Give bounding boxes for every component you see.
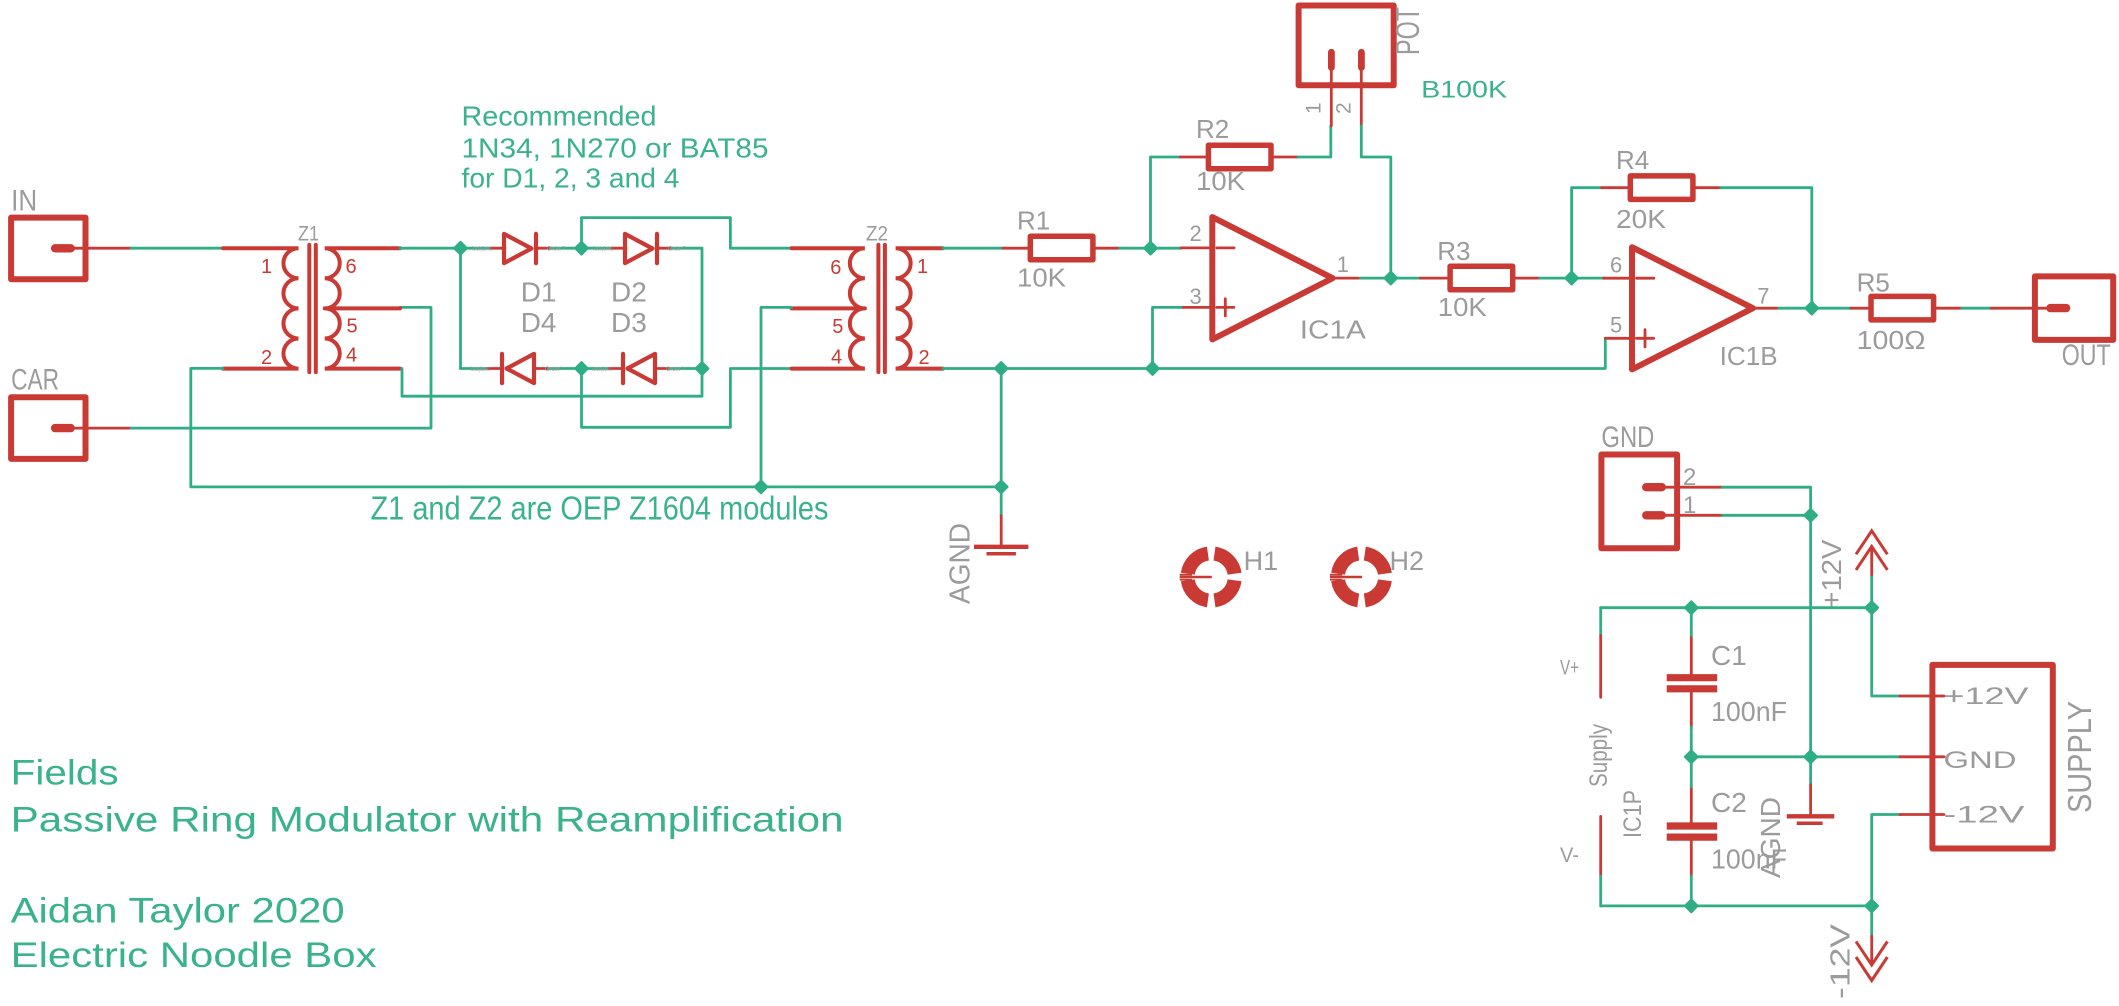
svg-text:Z1 and Z2 are OEP Z1604 module: Z1 and Z2 are OEP Z1604 modules [371, 489, 829, 526]
svg-text:6: 6 [830, 257, 841, 279]
svg-text:2: 2 [919, 347, 930, 369]
svg-text:10K: 10K [1017, 263, 1067, 293]
wire V- to -12V rail [1599, 876, 1602, 906]
diode D3 [582, 354, 689, 383]
wire C2 top [1690, 757, 1693, 787]
junction AGND net at Z2 pin5 drop [755, 481, 768, 494]
svg-text:2: 2 [1683, 464, 1696, 491]
svg-text:V+: V+ [1560, 657, 1579, 680]
svg-text:100nF: 100nF [1711, 844, 1787, 875]
svg-text:C2: C2 [1711, 787, 1747, 818]
transformer Z2 [792, 223, 943, 373]
wire AGND riser [1000, 369, 1003, 487]
wire AGND supply stem [1809, 757, 1812, 785]
wire R5 to OUT [1962, 307, 1991, 310]
wire IN to Z1 pin 1 [131, 247, 223, 250]
wire diode ring right side (D2 cathode to D3 cathode) [688, 248, 702, 368]
wire C1 bottom [1690, 727, 1693, 757]
wire R3 to IC1B node [1540, 277, 1572, 280]
svg-text:+12V: +12V [1816, 539, 1847, 608]
resistor R2 10K [1180, 114, 1298, 196]
svg-text:B100K: B100K [1421, 76, 1507, 103]
svg-text:Aidan Taylor 2020: Aidan Taylor 2020 [11, 892, 345, 931]
wire output node to R5 [1812, 307, 1851, 310]
svg-text:R4: R4 [1616, 145, 1649, 175]
junction AGND net main [995, 481, 1008, 494]
svg-text:-12V: -12V [1944, 802, 2025, 829]
svg-text:R2: R2 [1196, 114, 1229, 144]
junction C1/C2 on GND rail [1685, 751, 1698, 764]
svg-text:5: 5 [347, 316, 358, 338]
junction C2 bottom on -12V rail [1685, 900, 1698, 913]
wire GND pin 2 [1723, 487, 1811, 515]
wire IC1A output to output node [1360, 277, 1390, 280]
svg-text:D2: D2 [611, 276, 647, 307]
diode D2 [582, 234, 689, 263]
svg-text:IC1B: IC1B [1720, 341, 1778, 371]
op-amp power pins IC1P [1560, 636, 1647, 877]
connector POT [1299, 6, 1426, 126]
wire Z2 pin 2 to AGND junction [943, 367, 1001, 370]
junction +12V rail right [1865, 601, 1878, 614]
svg-text:SchottkyBarrier1: SchottkyBarrier1 [593, 247, 613, 253]
mounting hole H2 [1330, 546, 1424, 600]
svg-text:6: 6 [1610, 253, 1622, 278]
power symbol -12V arrow [1825, 924, 1888, 999]
svg-text:2: 2 [261, 347, 272, 369]
junction -12V rail right [1865, 900, 1878, 913]
wire C2 bottom [1690, 876, 1693, 906]
svg-text:4: 4 [831, 347, 842, 369]
junction diode ring top-left [454, 242, 467, 255]
svg-text:R3: R3 [1437, 236, 1470, 266]
wire node B up-over to Z2 pin 6 [582, 218, 792, 249]
svg-text:R5: R5 [1857, 268, 1890, 298]
svg-text:5: 5 [832, 316, 843, 338]
svg-text:5: 5 [1610, 313, 1622, 338]
wire POT pin 2 to IC1A output node [1361, 126, 1391, 278]
svg-text:100Ω: 100Ω [1857, 325, 1926, 355]
svg-text:GND: GND [1944, 747, 2017, 774]
transformer Z1 [223, 223, 400, 373]
wire GND rail [1691, 755, 1900, 758]
wire Z1 pin 6 to diode ring node A [400, 247, 461, 250]
wire IC1A pin 3 to AGND net [1153, 307, 1182, 368]
svg-text:1: 1 [917, 256, 928, 278]
resistor R3 10K [1420, 236, 1540, 322]
svg-text:OUT: OUT [2062, 339, 2111, 372]
wire CAR to Z1 pin 5 [131, 307, 431, 428]
svg-text:10K: 10K [1196, 166, 1246, 196]
wire C1 top [1690, 608, 1693, 636]
wire +12V arrow stem [1870, 577, 1873, 608]
junction IC1A pin3 on AGND net [1146, 362, 1159, 375]
svg-text:1N34, 1N270 or BAT85: 1N34, 1N270 or BAT85 [462, 132, 769, 163]
wire -12V pin of SUPPLY [1872, 815, 1900, 906]
svg-text:6: 6 [346, 256, 357, 278]
svg-text:2: 2 [1190, 221, 1202, 246]
wire GND connector to GND rail [1809, 515, 1812, 757]
svg-text:1: 1 [1683, 492, 1696, 519]
svg-text:1: 1 [1303, 102, 1326, 114]
svg-text:Order?: Order? [545, 367, 564, 373]
capacitor C2 100nF [1667, 787, 1787, 877]
note recommended diodes [462, 101, 769, 194]
wire node to IC1B pin 6 [1572, 277, 1604, 280]
resistor R5 100ohm [1851, 268, 1962, 356]
svg-text:100nF: 100nF [1711, 696, 1787, 727]
svg-text:Recommended: Recommended [462, 101, 657, 132]
svg-text:Fields: Fields [11, 754, 119, 793]
wire -12V rail [1601, 905, 1872, 908]
junction C1 top on +12V rail [1685, 601, 1698, 614]
ground symbol AGND (signal) [945, 516, 1029, 604]
wire +12V rail [1601, 606, 1872, 609]
svg-text:Supply: Supply [1585, 724, 1613, 787]
wire GND pin 1 [1723, 514, 1811, 517]
svg-text:SchottkyBarrier1: SchottkyBarrier1 [472, 247, 492, 253]
svg-text:R1: R1 [1017, 206, 1050, 236]
svg-text:SUPPLY: SUPPLY [2061, 701, 2098, 813]
svg-text:10K: 10K [1438, 292, 1488, 322]
junction diode ring top-middle [575, 242, 588, 255]
wire R1 to IC1A inverting node [1120, 247, 1151, 250]
wire R2 to POT pin 1 [1298, 126, 1331, 157]
wire Z2 pin 1 to R1 [943, 247, 1003, 250]
wire +12V pin of SUPPLY [1872, 608, 1900, 696]
svg-text:1: 1 [1337, 252, 1349, 277]
diode D1 [461, 234, 582, 263]
junction IC1A output node [1385, 272, 1398, 285]
svg-text:CAR: CAR [11, 364, 59, 397]
svg-text:AGND: AGND [945, 523, 977, 604]
svg-text:C1: C1 [1711, 640, 1747, 671]
wire IC1B output to node [1779, 307, 1812, 310]
svg-text:D1: D1 [521, 276, 557, 307]
wire inverting node up to R2 [1151, 157, 1181, 248]
junction IC1A inverting input node [1144, 242, 1157, 255]
mounting hole H1 [1180, 546, 1278, 600]
wire Z2 pin 5 to AGND net [761, 307, 792, 487]
wire +12V rail to V+ pin [1599, 608, 1602, 636]
resistor R1 10K [1003, 206, 1120, 293]
svg-text:H1: H1 [1244, 546, 1279, 576]
wire node up to R4 [1572, 188, 1602, 278]
diode D4 [461, 354, 582, 383]
op-amp IC1B [1604, 247, 1779, 371]
svg-text:SchottkyBarrier1: SchottkyBarrier1 [592, 367, 612, 373]
resistor R4 20K [1602, 145, 1722, 234]
svg-text:Order?: Order? [666, 367, 685, 373]
svg-text:IC1P: IC1P [1619, 790, 1647, 838]
svg-text:SchottkyBarrier1: SchottkyBarrier1 [470, 367, 490, 373]
svg-text:GND: GND [1601, 421, 1654, 454]
svg-text:Passive Ring Modulator with Re: Passive Ring Modulator with Reamplificat… [11, 800, 844, 839]
wire output node to R3 [1391, 277, 1420, 280]
svg-text:D3: D3 [611, 307, 647, 338]
junction diode ring bottom-middle [575, 362, 588, 375]
capacitor C1 100nF [1667, 636, 1787, 728]
connector CAR [11, 364, 131, 459]
wire node C down-over to Z2 pin 4 [582, 369, 792, 428]
wire Z1 pin 4 to node D [402, 369, 702, 397]
wire AGND symbol stem [1000, 487, 1003, 516]
wire inverting node to IC1A pin 2 [1151, 247, 1182, 250]
svg-text:IN: IN [11, 184, 37, 217]
connector OUT [1991, 276, 2113, 372]
wire -12V arrow stem [1870, 906, 1873, 936]
svg-text:4: 4 [346, 345, 357, 367]
svg-text:for D1, 2, 3 and 4: for D1, 2, 3 and 4 [462, 162, 680, 193]
junction R3 / R4 / IC1B pin6 node [1565, 272, 1578, 285]
wire Z1 pin 2 to AGND net [191, 368, 1001, 487]
svg-text:+12V: +12V [1944, 683, 2029, 710]
connector IN [11, 184, 131, 279]
junction GND rail / AGND [1804, 751, 1817, 764]
op-amp IC1A [1181, 217, 1367, 344]
svg-text:2: 2 [1333, 102, 1356, 114]
ground symbol AGND (supply) [1755, 785, 1834, 878]
junction Z2 pin2 / AGND riser [995, 362, 1008, 375]
svg-text:Order?: Order? [668, 247, 687, 253]
svg-text:POT: POT [1389, 7, 1426, 55]
connector SUPPLY [1900, 665, 2098, 849]
wire AGND net to IC1B pin 5 [1001, 338, 1605, 368]
svg-text:3: 3 [1190, 284, 1202, 309]
junction GND connector pins [1804, 509, 1817, 522]
svg-text:H2: H2 [1390, 546, 1425, 576]
svg-text:1: 1 [261, 256, 272, 278]
connector GND [1601, 421, 1722, 548]
svg-text:Order?: Order? [547, 247, 566, 253]
wire diode ring left side (node A vertical) [459, 248, 462, 368]
wire R4 to IC1B output node [1721, 188, 1812, 309]
svg-text:V-: V- [1560, 844, 1579, 867]
svg-text:D4: D4 [521, 307, 557, 338]
svg-text:IC1A: IC1A [1300, 315, 1367, 345]
svg-text:Z2: Z2 [866, 223, 888, 246]
svg-text:7: 7 [1757, 284, 1769, 309]
svg-text:Electric Noodle Box: Electric Noodle Box [11, 936, 378, 975]
junction diode ring bottom-right [696, 362, 709, 375]
power symbol +12V arrow [1816, 531, 1887, 609]
svg-text:20K: 20K [1616, 204, 1667, 234]
svg-text:-12V: -12V [1825, 924, 1856, 999]
junction IC1B output node [1806, 302, 1819, 315]
svg-text:Z1: Z1 [298, 223, 319, 246]
